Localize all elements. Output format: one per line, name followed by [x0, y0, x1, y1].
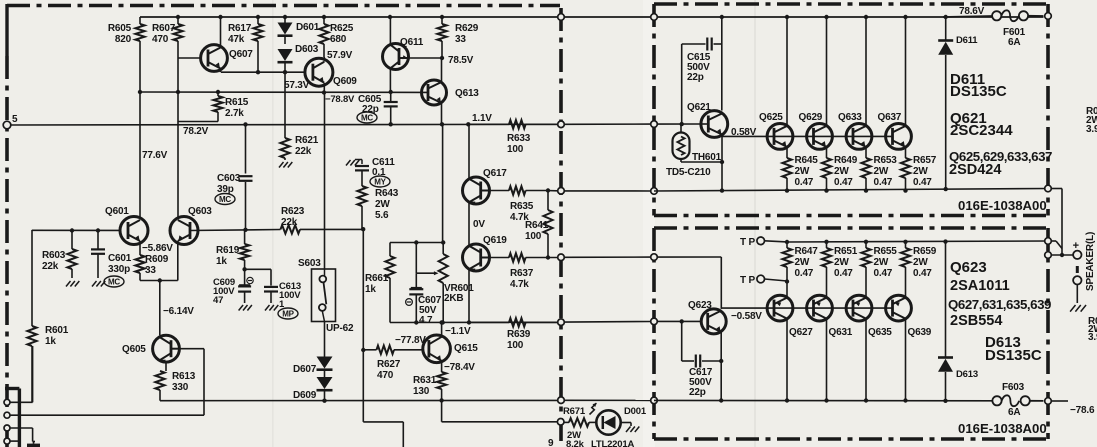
svg-text:1.1V: 1.1V	[472, 113, 492, 124]
wire Q621 emitter to bases	[722, 135, 774, 137]
wire pin c to ground	[10, 427, 33, 429]
switch S603 contacts	[319, 276, 326, 283]
board border left (dash-dot)	[5, 56, 9, 447]
transistor Q627	[767, 295, 793, 321]
feedthrough spk a	[1045, 238, 1052, 245]
svg-text:33: 33	[455, 34, 466, 45]
junction R619 bottom	[242, 267, 246, 271]
feedthrough at block border y=400.4	[651, 397, 658, 404]
svg-text:R651: R651	[834, 246, 858, 257]
svg-text:MC: MC	[108, 278, 120, 287]
junction R617 at Q609 base line	[256, 70, 260, 74]
junction lower supply	[719, 398, 723, 402]
wire link 124	[564, 123, 650, 125]
svg-text:Q609: Q609	[333, 76, 357, 87]
resistor R639	[469, 321, 509, 323]
svg-text:−78.4V: −78.4V	[444, 362, 475, 373]
ground below C613	[265, 305, 270, 311]
svg-text:R619: R619	[216, 245, 240, 256]
svg-text:TD5-C210: TD5-C210	[666, 167, 711, 178]
wire Q619 emitter down	[468, 270, 470, 323]
transistor Q635	[846, 295, 872, 321]
svg-text:100: 100	[507, 144, 524, 155]
junction D609 bottom	[322, 399, 326, 403]
svg-text:SPEAKER(L): SPEAKER(L)	[1085, 232, 1096, 291]
wire bias bottom line	[390, 321, 557, 323]
svg-text:T P: T P	[740, 275, 755, 286]
transistor Q609	[305, 58, 333, 86]
svg-text:130: 130	[413, 386, 430, 397]
ground below R621	[279, 162, 284, 168]
svg-text:4.7: 4.7	[419, 315, 433, 326]
wire -78.6V exit	[1052, 400, 1068, 402]
svg-text:Q639: Q639	[908, 327, 932, 338]
wire link 400	[564, 399, 650, 401]
svg-text:R607: R607	[152, 23, 176, 34]
feedthrough at main border y=190.8	[558, 188, 565, 195]
junction R607 column at -78.8V line	[176, 90, 180, 94]
resistor R621	[280, 138, 289, 158]
resistor R609	[139, 253, 141, 255]
svg-text:Q627,631,635,639: Q627,631,635,639	[948, 297, 1051, 312]
wire link 321	[564, 321, 650, 324]
svg-text:Q625: Q625	[759, 112, 783, 123]
wire bias top line	[390, 242, 443, 244]
svg-text:R635: R635	[510, 201, 534, 212]
svg-text:Q619: Q619	[483, 235, 507, 246]
wire wiper	[415, 243, 417, 274]
fuse F601	[943, 16, 992, 17]
diode D609	[324, 370, 326, 377]
board border left solid corner	[5, 4, 8, 56]
svg-text:F603: F603	[1002, 382, 1025, 393]
svg-text:1k: 1k	[216, 256, 227, 267]
svg-text:0.47: 0.47	[913, 177, 932, 188]
wire diode column to R621	[284, 72, 286, 138]
capacitor C615	[681, 44, 683, 124]
svg-text:22p: 22p	[687, 72, 704, 83]
svg-text:D601: D601	[296, 22, 320, 33]
terminal pin 9	[557, 419, 564, 426]
svg-text:9: 9	[548, 438, 554, 447]
svg-text:6A: 6A	[1008, 407, 1020, 418]
resistor R627	[363, 349, 376, 351]
transistor Q619	[468, 203, 470, 246]
junction R655 top	[864, 240, 868, 244]
wire upper output line	[654, 189, 1048, 192]
svg-text:2W: 2W	[834, 166, 849, 177]
transistor Q629	[807, 123, 833, 149]
junction on +rail	[440, 15, 444, 19]
resistor R601	[27, 326, 36, 346]
svg-text:57.3V: 57.3V	[284, 80, 310, 91]
resistor R657	[905, 156, 907, 158]
svg-text:D613: D613	[956, 369, 978, 380]
svg-text:R653: R653	[874, 155, 898, 166]
svg-text:MY: MY	[374, 178, 386, 187]
diode D603	[278, 49, 293, 61]
svg-text:R631: R631	[413, 375, 437, 386]
junction R623 right at bus	[361, 227, 365, 231]
output block 2 border left	[652, 228, 656, 439]
svg-text:0.47: 0.47	[834, 268, 853, 279]
svg-text:R659: R659	[913, 246, 937, 257]
svg-text:2W: 2W	[874, 257, 889, 268]
ground below R603	[66, 281, 71, 287]
resistor R647	[786, 242, 788, 248]
svg-text:3.9: 3.9	[1088, 332, 1097, 343]
svg-text:470: 470	[152, 34, 169, 45]
feedthrough at block border y=191	[651, 188, 658, 195]
svg-text:2SD424: 2SD424	[949, 162, 1001, 178]
junction Q609 emitter	[322, 90, 326, 94]
resistor R623	[281, 225, 301, 233]
transistor Q611	[383, 44, 409, 70]
output block 2 border bottom	[654, 437, 1048, 441]
resistor R607	[177, 17, 179, 24]
resistor R635	[490, 190, 510, 192]
svg-text:R671: R671	[563, 406, 586, 417]
output block 1 border right	[1046, 4, 1050, 216]
connector pin d	[4, 438, 10, 444]
junction R647 top	[785, 240, 789, 244]
svg-text:R603: R603	[42, 250, 66, 261]
junction C605 bottom	[389, 122, 393, 126]
junction R631 bottom	[439, 398, 443, 402]
svg-text:4.7k: 4.7k	[510, 279, 529, 290]
resistor R649	[826, 156, 828, 158]
svg-text:3.9: 3.9	[1086, 124, 1097, 135]
wire to C613	[245, 268, 271, 270]
wire Q623 emitter down	[720, 332, 722, 401]
junction on +rail	[176, 15, 180, 19]
svg-text:820: 820	[115, 34, 132, 45]
feedthrough at block border y=124.1	[651, 121, 658, 128]
junction on +rail	[256, 15, 260, 19]
connector pin c	[4, 425, 10, 431]
junction on +rail	[720, 15, 724, 19]
wire link 191	[564, 190, 650, 192]
wire to spk+	[1051, 254, 1073, 256]
feedthrough F601 out	[1045, 13, 1052, 20]
wire input column	[31, 230, 33, 326]
svg-text:S603: S603	[298, 258, 321, 269]
wire TH601 bottom	[681, 161, 722, 163]
wire lower base rail	[767, 307, 892, 309]
wire bus to S603	[324, 93, 326, 270]
svg-text:Q631: Q631	[829, 327, 853, 338]
resistor R641	[547, 191, 549, 211]
transistor Q639	[886, 295, 912, 321]
transistor Q631	[807, 295, 833, 321]
resistor R633	[468, 123, 509, 125]
junction on +rail	[322, 15, 326, 19]
junction R659 top	[903, 240, 907, 244]
feedthrough at block border y=257.1	[651, 254, 658, 261]
svg-text:LTL2201A: LTL2201A	[591, 439, 634, 447]
svg-text:57.9V: 57.9V	[327, 50, 353, 61]
resistor R629	[441, 17, 443, 24]
connector outline	[18, 389, 21, 447]
svg-text:R657: R657	[913, 155, 937, 166]
svg-text:R627: R627	[377, 359, 401, 370]
svg-text:Q621: Q621	[687, 102, 711, 113]
svg-text:R609: R609	[145, 254, 169, 265]
svg-text:−1.1V: −1.1V	[445, 326, 471, 337]
output block 1 border bottom	[654, 214, 1048, 218]
resistor R659	[905, 242, 907, 248]
output block 2 border right	[1046, 228, 1050, 439]
transistor Q607	[201, 45, 228, 72]
svg-text:−78.6: −78.6	[1070, 405, 1095, 416]
svg-text:470: 470	[377, 370, 394, 381]
svg-text:Q637: Q637	[878, 112, 902, 123]
wire spk join	[1051, 240, 1056, 242]
svg-text:0.47: 0.47	[874, 268, 893, 279]
wire switch to D607	[324, 322, 326, 357]
junction Q621 emitter output	[720, 188, 724, 192]
svg-text:Q635: Q635	[868, 327, 892, 338]
junction output line at Q617 column	[466, 122, 470, 126]
svg-text:D611: D611	[956, 35, 978, 46]
LED D001	[596, 410, 620, 434]
svg-text:0.58V: 0.58V	[731, 127, 757, 138]
junction lower supply	[824, 398, 828, 402]
wire pin b line	[10, 414, 204, 416]
svg-text:R647: R647	[795, 246, 819, 257]
wire +78.6V rail	[140, 16, 1044, 18]
svg-text:R633: R633	[507, 133, 531, 144]
junction R645 bottom	[785, 188, 789, 192]
junction R615 top	[216, 90, 220, 94]
capacitor C611	[355, 165, 369, 167]
transistor Q601	[120, 217, 148, 245]
svg-text:UP-62: UP-62	[326, 323, 354, 334]
ground LED	[626, 427, 631, 433]
svg-text:22k: 22k	[295, 146, 312, 157]
transistor Q615	[423, 335, 451, 363]
svg-text:−6.14V: −6.14V	[163, 306, 194, 317]
svg-text:R637: R637	[510, 268, 534, 279]
wire link 257	[564, 256, 650, 258]
transistor Q621	[701, 111, 728, 138]
svg-text:D001: D001	[624, 406, 647, 417]
capacitor C601	[97, 231, 99, 250]
transistor Q613	[422, 80, 447, 105]
terminal pin 5	[3, 121, 11, 129]
wire Q623 collector up	[720, 257, 722, 309]
svg-text:T P: T P	[740, 237, 755, 248]
svg-text:77.6V: 77.6V	[142, 150, 168, 161]
svg-text:R601: R601	[45, 325, 69, 336]
svg-text:R615: R615	[225, 97, 249, 108]
feedthrough at main border y=124.3	[558, 121, 565, 128]
resistor R643	[361, 184, 363, 186]
resistor R613	[155, 371, 164, 390]
svg-text:Q623: Q623	[688, 300, 712, 311]
svg-text:D603: D603	[295, 44, 319, 55]
wire pin a to R601	[10, 401, 33, 403]
svg-text:47: 47	[213, 295, 223, 306]
svg-text:2W: 2W	[874, 166, 889, 177]
svg-text:R617: R617	[228, 23, 252, 34]
svg-text:R655: R655	[874, 246, 898, 257]
svg-text:Q607: Q607	[229, 49, 253, 60]
wire tail to Q605	[159, 281, 161, 336]
feedthrough spk b	[1045, 252, 1052, 259]
resistor R617	[257, 17, 259, 24]
resistor R661	[389, 243, 391, 257]
diode D611	[945, 17, 947, 40]
junction lower supply	[785, 398, 789, 402]
svg-text:−5.86V: −5.86V	[142, 243, 173, 254]
feedthrough at main border y=257.3	[558, 254, 565, 261]
diode D601	[284, 17, 286, 23]
svg-text:−77.8V: −77.8V	[395, 335, 426, 346]
svg-text:D609: D609	[293, 390, 317, 401]
svg-text:R623: R623	[281, 206, 305, 217]
feedthrough at block border y=17	[651, 14, 658, 21]
resistor R625	[323, 17, 325, 24]
junction lower supply	[864, 398, 868, 402]
wire link 257 into block	[657, 256, 721, 258]
resistor R671	[564, 421, 569, 423]
board border top (dash-dot)	[7, 4, 560, 8]
junction on +rail	[218, 15, 222, 19]
wire LED cathode to ground	[621, 422, 631, 424]
wire output line 1.1V	[10, 123, 558, 126]
transistor Q637	[886, 123, 912, 149]
wire upper base rail	[774, 135, 893, 137]
thermistor TH601	[680, 124, 682, 132]
wire Q621 emitter to output line	[721, 135, 723, 191]
svg-text:R629: R629	[455, 23, 479, 34]
switch S603 box	[312, 269, 336, 322]
svg-text:016E-1038A00: 016E-1038A00	[958, 198, 1047, 213]
wire side link	[1051, 188, 1062, 190]
svg-text:5.6: 5.6	[375, 210, 389, 221]
label C607 polarity	[406, 299, 413, 306]
junction Q603 base components	[243, 228, 247, 232]
feedthrough F603 out	[1045, 398, 1052, 405]
junction R653 bottom	[864, 188, 868, 192]
wire Q621 base line	[657, 123, 700, 125]
wire Q607 emitter to Q609 base	[221, 71, 305, 73]
feedthrough at main border y=322.2	[558, 319, 565, 326]
junction C605 top	[389, 90, 393, 94]
connector pin b	[4, 412, 10, 418]
svg-text:R649: R649	[834, 155, 858, 166]
wire pin d stub	[10, 440, 18, 442]
svg-text:Q617: Q617	[483, 168, 507, 179]
svg-text:Q613: Q613	[455, 88, 479, 99]
svg-text:0.47: 0.47	[874, 177, 893, 188]
junction R651 top	[824, 240, 828, 244]
junction on +rail	[944, 15, 948, 19]
svg-text:330: 330	[172, 382, 189, 393]
resistor R603	[71, 231, 73, 250]
junction R641 bottom	[546, 255, 550, 259]
svg-text:78.5V: 78.5V	[448, 55, 474, 66]
junction VR601 top	[441, 240, 445, 244]
svg-text:+: +	[1073, 240, 1079, 252]
terminal speaker plus	[1073, 251, 1081, 259]
svg-text:Q605: Q605	[122, 344, 146, 355]
transistor Q633	[846, 123, 872, 149]
capacitor C605	[390, 92, 392, 102]
svg-text:R613: R613	[172, 371, 196, 382]
resistor R651	[826, 242, 828, 248]
junction C601 top	[96, 228, 100, 232]
junction on +rail	[283, 15, 287, 19]
diode D607	[317, 357, 333, 369]
output block 2 border top	[654, 226, 1048, 230]
svg-text:2W: 2W	[375, 199, 390, 210]
svg-text:680: 680	[330, 34, 347, 45]
feedthrough at main border y=17	[558, 14, 565, 21]
ground below C601	[92, 281, 97, 287]
svg-text:2W: 2W	[795, 166, 810, 177]
terminal speaker minus	[1073, 276, 1081, 284]
junction R641 top	[546, 188, 550, 192]
resistor R605	[139, 17, 141, 24]
wire -78.8V line	[140, 91, 428, 93]
svg-text:DS135C: DS135C	[950, 83, 1007, 100]
wire lower output line	[787, 241, 1048, 242]
junction on +rail	[903, 15, 907, 19]
transistor Q625	[767, 123, 793, 149]
feedthrough at main border y=400.2	[558, 397, 565, 404]
wire lower -78.6V line	[654, 399, 993, 401]
svg-text:−0.58V: −0.58V	[731, 311, 762, 322]
svg-text:100: 100	[507, 340, 524, 351]
svg-text:0.47: 0.47	[795, 177, 814, 188]
resistor R631	[441, 371, 443, 372]
junction C607 bottom	[414, 320, 418, 324]
svg-text:Q615: Q615	[454, 343, 478, 354]
junction C617 base node	[680, 319, 684, 323]
junction lower supply	[903, 398, 907, 402]
svg-text:−78.8V: −78.8V	[325, 94, 355, 105]
svg-text:2SA1011: 2SA1011	[950, 278, 1010, 294]
svg-text:2W: 2W	[795, 257, 810, 268]
capacitor C603	[245, 124, 247, 173]
junction emitter node	[158, 278, 162, 282]
wire R635 node to border	[546, 190, 557, 192]
capacitor C617	[681, 321, 683, 361]
connector pin a	[4, 399, 10, 405]
junction Q621 base node	[680, 122, 684, 126]
svg-text:R639: R639	[507, 329, 531, 340]
svg-text:DS135C: DS135C	[985, 347, 1042, 364]
feedthrough at block border y=321.4	[651, 318, 658, 325]
wire Q603 base line	[189, 230, 280, 231]
svg-text:C601: C601	[108, 253, 132, 264]
junction on +rail	[388, 15, 392, 19]
board border right edge of main block (dash-dot vertical)	[559, 8, 563, 447]
svg-text:2KB: 2KB	[444, 293, 463, 304]
junction R603 top	[70, 228, 74, 232]
svg-text:C603: C603	[217, 173, 241, 184]
resistor R619	[244, 230, 246, 244]
junction on +rail	[824, 15, 828, 19]
svg-text:6A: 6A	[1008, 37, 1020, 48]
svg-text:5: 5	[12, 114, 18, 125]
LED light arrow	[590, 403, 597, 414]
svg-text:R605: R605	[108, 23, 132, 34]
capacitor C607	[415, 273, 417, 287]
svg-text:R621: R621	[295, 135, 319, 146]
